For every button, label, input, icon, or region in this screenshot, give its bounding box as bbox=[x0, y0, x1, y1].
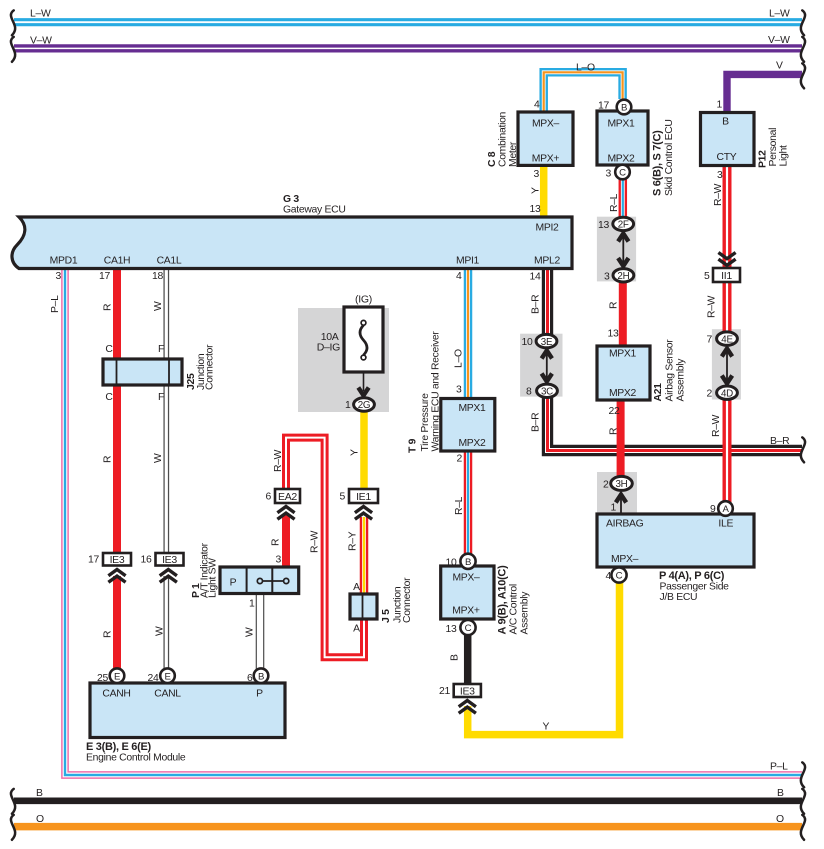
svg-text:(IG): (IG) bbox=[355, 294, 372, 306]
svg-text:R–Y: R–Y bbox=[348, 531, 359, 551]
break brace V-W right bbox=[801, 37, 805, 62]
connector 3E/3C shaded zone bbox=[520, 334, 562, 397]
arrow into II1 bbox=[718, 253, 735, 266]
svg-text:10: 10 bbox=[522, 337, 533, 348]
svg-text:Gateway ECU: Gateway ECU bbox=[283, 205, 346, 216]
wire Y fuse to IE1 bbox=[360, 410, 368, 490]
connector oval 2G bbox=[354, 398, 375, 411]
ECU T9 Tire Pressure Warning ECU box bbox=[441, 399, 495, 452]
svg-text:L–W: L–W bbox=[30, 9, 51, 20]
svg-text:IE3: IE3 bbox=[460, 686, 475, 698]
svg-text:5: 5 bbox=[340, 492, 346, 503]
svg-text:17: 17 bbox=[598, 101, 609, 112]
break brace B right bbox=[801, 789, 805, 814]
ECU G3 Gateway ECU box bbox=[12, 217, 572, 269]
svg-text:10: 10 bbox=[446, 558, 457, 569]
svg-text:Combination: Combination bbox=[498, 111, 509, 167]
arrow into IE3 16 bbox=[160, 570, 177, 583]
fuse 10A D-IG bbox=[344, 307, 383, 372]
break brace O right bbox=[801, 815, 805, 840]
wire B-R 3C to right edge bbox=[548, 395, 803, 451]
svg-text:Assembly: Assembly bbox=[676, 358, 687, 402]
svg-text:MPX+: MPX+ bbox=[452, 606, 480, 617]
svg-text:L–O: L–O bbox=[453, 349, 464, 368]
svg-text:13: 13 bbox=[530, 204, 541, 215]
svg-text:R: R bbox=[271, 538, 282, 546]
svg-text:C 8: C 8 bbox=[487, 151, 498, 167]
connector oval 2F bbox=[613, 217, 634, 230]
junction J5 Junction Connector box bbox=[350, 594, 377, 619]
connector circle B A/C bbox=[460, 554, 475, 569]
wire R 2H to A21 bbox=[619, 280, 627, 348]
connector circle B ECM bbox=[254, 668, 269, 683]
connector circle E CANH bbox=[110, 668, 125, 683]
wire W P1 to ECM P bbox=[256, 592, 265, 670]
svg-text:21: 21 bbox=[439, 686, 450, 697]
break brace O left bbox=[11, 815, 15, 840]
svg-text:P12: P12 bbox=[758, 150, 769, 168]
connector II1 bbox=[713, 268, 740, 282]
svg-text:A21: A21 bbox=[653, 383, 664, 402]
svg-text:13: 13 bbox=[608, 329, 619, 340]
arrow 2F-2H bbox=[622, 236, 624, 263]
svg-text:CANL: CANL bbox=[154, 689, 181, 700]
connector EA2 bbox=[275, 489, 300, 503]
svg-text:B: B bbox=[621, 103, 627, 114]
svg-text:CTY: CTY bbox=[717, 152, 737, 163]
svg-text:3: 3 bbox=[56, 271, 62, 282]
svg-text:14: 14 bbox=[530, 272, 541, 283]
connector oval 3H bbox=[611, 476, 633, 490]
svg-text:IE3: IE3 bbox=[162, 554, 177, 566]
svg-text:MPI1: MPI1 bbox=[456, 256, 480, 267]
connector circle B S6 bbox=[617, 100, 632, 115]
svg-text:Passenger Side: Passenger Side bbox=[660, 582, 730, 593]
wire R-W loop EA2 to J5 bbox=[286, 438, 364, 658]
svg-text:MPX–: MPX– bbox=[611, 554, 639, 565]
svg-text:A 9(B), A10(C): A 9(B), A10(C) bbox=[497, 565, 509, 635]
arrow 3E-3C bbox=[546, 353, 548, 380]
svg-text:22: 22 bbox=[609, 406, 620, 417]
wire Y IE3 to J/B ECU bbox=[468, 582, 620, 735]
svg-text:Meter: Meter bbox=[508, 141, 519, 167]
svg-text:C: C bbox=[465, 623, 472, 634]
svg-text:R–W: R–W bbox=[707, 295, 718, 318]
svg-text:2G: 2G bbox=[358, 400, 370, 411]
svg-text:Warning ECU and Receiver: Warning ECU and Receiver bbox=[431, 331, 442, 452]
svg-text:3H: 3H bbox=[616, 479, 628, 490]
svg-text:9: 9 bbox=[710, 504, 716, 515]
wire W CA1L upper bbox=[163, 266, 169, 554]
svg-text:Light: Light bbox=[779, 145, 790, 166]
svg-text:A: A bbox=[353, 624, 360, 635]
svg-text:B: B bbox=[36, 788, 43, 799]
svg-text:3: 3 bbox=[534, 169, 540, 180]
svg-text:R: R bbox=[608, 301, 619, 309]
svg-text:B: B bbox=[722, 117, 729, 128]
svg-text:3: 3 bbox=[606, 169, 612, 180]
svg-text:F: F bbox=[158, 392, 164, 403]
svg-text:L–O: L–O bbox=[576, 63, 595, 74]
svg-text:E: E bbox=[114, 671, 120, 682]
break brace B left bbox=[11, 789, 15, 814]
wire V-W bus bbox=[14, 44, 802, 52]
arrow into IE3 21 bbox=[459, 701, 476, 714]
svg-text:C: C bbox=[619, 168, 626, 179]
svg-text:3: 3 bbox=[717, 170, 723, 181]
svg-text:Y: Y bbox=[542, 722, 549, 733]
svg-text:2: 2 bbox=[457, 454, 463, 465]
junction J25 Junction Connector box bbox=[103, 359, 182, 385]
svg-text:MPX–: MPX– bbox=[452, 573, 480, 584]
svg-text:E 3(B), E 6(E): E 3(B), E 6(E) bbox=[86, 741, 152, 753]
svg-text:5: 5 bbox=[704, 271, 710, 282]
sensor A21 Airbag Sensor Assembly box bbox=[597, 346, 650, 400]
break brace L-W left bbox=[11, 10, 15, 35]
svg-text:A/C Control: A/C Control bbox=[509, 584, 520, 634]
svg-text:W: W bbox=[155, 626, 166, 636]
wire V to P12 bbox=[727, 74, 802, 116]
svg-text:MPX2: MPX2 bbox=[458, 438, 486, 449]
svg-text:IE3: IE3 bbox=[110, 554, 125, 566]
svg-text:W: W bbox=[153, 301, 164, 311]
svg-text:O: O bbox=[36, 814, 44, 825]
svg-text:3E: 3E bbox=[541, 337, 553, 348]
svg-text:4E: 4E bbox=[721, 334, 733, 345]
wire R EA2 to P1 bbox=[282, 514, 290, 568]
svg-text:P–L: P–L bbox=[50, 295, 61, 313]
svg-text:3: 3 bbox=[456, 385, 462, 396]
svg-text:Personal: Personal bbox=[768, 128, 779, 167]
svg-text:4: 4 bbox=[456, 271, 462, 282]
svg-text:Skid Control ECU: Skid Control ECU bbox=[664, 119, 675, 196]
svg-text:2: 2 bbox=[603, 480, 609, 491]
svg-text:B: B bbox=[450, 654, 461, 661]
break brace L-W right bbox=[801, 10, 805, 35]
wire R-W 4D to ILE bbox=[723, 397, 732, 503]
svg-text:R–W: R–W bbox=[713, 183, 724, 206]
svg-text:1: 1 bbox=[611, 503, 617, 514]
connector IE3 16 bbox=[156, 553, 184, 566]
wire R A21 to 3H bbox=[617, 398, 625, 478]
svg-text:P 4(A), P 6(C): P 4(A), P 6(C) bbox=[659, 570, 725, 582]
connector IE3 21 bbox=[454, 684, 481, 697]
svg-text:MPX1: MPX1 bbox=[607, 119, 635, 130]
svg-text:Assembly: Assembly bbox=[520, 591, 531, 635]
connector circle C S6 bbox=[615, 165, 630, 180]
wire L-W bus bbox=[14, 18, 802, 26]
wire B A/C to IE3 bbox=[464, 633, 472, 685]
svg-text:4: 4 bbox=[534, 100, 540, 111]
arrow 4E-4D bbox=[726, 351, 728, 381]
svg-text:A: A bbox=[353, 582, 360, 593]
svg-text:B–R: B–R bbox=[531, 294, 542, 314]
svg-text:S 6(B), S 7(C): S 6(B), S 7(C) bbox=[652, 130, 664, 196]
svg-text:MPX2: MPX2 bbox=[607, 154, 635, 165]
connector circle C J/B bbox=[611, 567, 626, 582]
connector circle C A/C bbox=[460, 620, 475, 635]
svg-text:2F: 2F bbox=[618, 220, 629, 231]
svg-text:Engine Control Module: Engine Control Module bbox=[86, 753, 186, 764]
ECU P4/P6 Passenger Side J/B ECU box bbox=[597, 514, 754, 567]
wire R-Y IE1 to J5 bbox=[360, 517, 369, 596]
wire R CA1H upper bbox=[113, 266, 121, 554]
svg-text:4D: 4D bbox=[721, 388, 733, 399]
svg-text:C: C bbox=[616, 571, 623, 582]
svg-text:R: R bbox=[103, 455, 114, 463]
svg-text:B: B bbox=[465, 557, 471, 568]
svg-text:17: 17 bbox=[88, 555, 99, 566]
svg-text:3: 3 bbox=[604, 272, 610, 283]
svg-text:J/B ECU: J/B ECU bbox=[660, 592, 698, 603]
wire L-O MPI1 to T9 bbox=[464, 266, 473, 400]
svg-text:16: 16 bbox=[141, 555, 152, 566]
svg-text:W: W bbox=[153, 453, 164, 463]
svg-text:F: F bbox=[158, 344, 164, 355]
wire Y C8 to G3 MPI2 bbox=[540, 164, 548, 218]
svg-text:1: 1 bbox=[717, 100, 723, 111]
svg-text:MPD1: MPD1 bbox=[50, 256, 78, 267]
svg-text:Connector: Connector bbox=[402, 577, 413, 623]
svg-text:CA1L: CA1L bbox=[157, 256, 182, 267]
svg-text:2: 2 bbox=[707, 389, 713, 400]
svg-text:Tire Pressure: Tire Pressure bbox=[420, 393, 431, 452]
svg-text:25: 25 bbox=[97, 673, 108, 684]
wire W CA1L lower bbox=[163, 576, 169, 670]
svg-text:A: A bbox=[722, 504, 729, 515]
break brace P-L right bbox=[801, 762, 805, 787]
svg-text:6: 6 bbox=[247, 673, 253, 684]
connector circle E CANL bbox=[160, 668, 175, 683]
svg-text:R–W: R–W bbox=[711, 414, 722, 437]
svg-text:R: R bbox=[103, 303, 114, 311]
svg-text:J 5: J 5 bbox=[381, 609, 392, 623]
svg-text:18: 18 bbox=[152, 271, 163, 282]
svg-text:W: W bbox=[244, 627, 255, 637]
svg-text:B: B bbox=[258, 671, 264, 682]
svg-text:EA2: EA2 bbox=[278, 491, 297, 503]
connector oval 4E bbox=[717, 332, 738, 345]
fuse output lead bbox=[363, 372, 365, 391]
wire R CA1H lower bbox=[113, 576, 121, 670]
svg-text:E: E bbox=[164, 671, 170, 682]
svg-text:R–L: R–L bbox=[609, 193, 620, 212]
light P12 Personal Light box bbox=[701, 113, 755, 166]
connector oval 2H bbox=[613, 269, 634, 282]
arrow into IE3 17 bbox=[108, 570, 125, 583]
wire P-L from G3 MPD1 bbox=[65, 266, 802, 775]
svg-text:8: 8 bbox=[526, 387, 532, 398]
connector oval 3C bbox=[537, 384, 558, 397]
svg-text:C: C bbox=[105, 344, 113, 355]
svg-text:B–R: B–R bbox=[531, 412, 542, 432]
break brace B-R right bbox=[801, 437, 805, 462]
svg-text:7: 7 bbox=[707, 335, 713, 346]
svg-text:13: 13 bbox=[598, 220, 609, 231]
connector IE3 17 bbox=[103, 553, 131, 566]
wire R-L T9 to A/C bbox=[464, 450, 473, 556]
break brace V-W left bbox=[11, 37, 15, 62]
arrow into 3H bbox=[620, 498, 622, 514]
svg-text:24: 24 bbox=[148, 673, 159, 684]
arrow into IE1 bbox=[355, 507, 372, 520]
svg-text:CANH: CANH bbox=[102, 689, 130, 700]
svg-text:1: 1 bbox=[345, 400, 351, 411]
connector 3H shaded zone bbox=[597, 472, 637, 514]
svg-text:R–W: R–W bbox=[310, 530, 321, 553]
panel A9/A10 A/C Control Assembly box bbox=[441, 566, 494, 619]
switch P1 A/T Indicator Light SW box bbox=[220, 567, 299, 594]
svg-text:V: V bbox=[776, 61, 783, 72]
svg-text:Light SW: Light SW bbox=[208, 558, 219, 598]
svg-text:V–W: V–W bbox=[30, 36, 52, 47]
svg-text:B: B bbox=[777, 788, 784, 799]
svg-text:R: R bbox=[103, 630, 114, 638]
svg-text:MPX1: MPX1 bbox=[609, 349, 637, 360]
svg-text:1: 1 bbox=[249, 599, 255, 610]
svg-text:IE1: IE1 bbox=[356, 491, 371, 503]
wire R-L S6 to 2F bbox=[619, 178, 628, 219]
meter C8 Combination Meter box bbox=[518, 112, 573, 165]
svg-text:MPX+: MPX+ bbox=[532, 154, 560, 165]
svg-text:3C: 3C bbox=[541, 387, 553, 398]
connector IE1 bbox=[349, 489, 378, 503]
svg-text:17: 17 bbox=[99, 271, 110, 282]
fuse block shaded zone bbox=[298, 308, 389, 412]
connector oval 4D bbox=[717, 386, 738, 399]
wire B bus bbox=[14, 797, 802, 804]
wire L-O C8 to S6 bbox=[544, 72, 623, 113]
svg-text:B–R: B–R bbox=[770, 436, 790, 447]
connector 2F/2H shaded zone bbox=[597, 217, 636, 282]
svg-text:V–W: V–W bbox=[768, 35, 790, 46]
svg-text:MPI2: MPI2 bbox=[535, 223, 559, 234]
svg-text:3: 3 bbox=[276, 555, 282, 566]
svg-text:MPX–: MPX– bbox=[532, 119, 560, 130]
svg-text:P–L: P–L bbox=[770, 762, 788, 773]
svg-text:P: P bbox=[256, 689, 263, 700]
ECM E3/E6 Engine Control Module box bbox=[90, 683, 285, 738]
svg-text:O: O bbox=[776, 814, 784, 825]
wire R-W II1 to 4E bbox=[723, 282, 732, 334]
wire R-W CTY to II1 bbox=[723, 164, 732, 268]
svg-text:Y: Y bbox=[350, 449, 361, 456]
svg-text:II1: II1 bbox=[721, 270, 732, 282]
svg-text:P: P bbox=[230, 578, 237, 589]
svg-text:R–L: R–L bbox=[454, 496, 465, 515]
svg-text:T 9: T 9 bbox=[408, 438, 419, 453]
svg-text:G 3: G 3 bbox=[283, 194, 299, 205]
connector oval 3E bbox=[536, 334, 557, 347]
wire B-R MPL2 to 3E bbox=[542, 266, 553, 336]
ECU S6 Skid Control ECU box bbox=[597, 111, 648, 165]
svg-text:ILE: ILE bbox=[718, 519, 733, 530]
svg-text:Connector: Connector bbox=[205, 344, 216, 390]
break brace V right bbox=[801, 63, 805, 88]
connector circle A J/B bbox=[718, 501, 733, 516]
svg-text:Airbag Sensor: Airbag Sensor bbox=[665, 339, 676, 402]
arrow into EA2 bbox=[277, 507, 294, 520]
svg-text:R–W: R–W bbox=[273, 449, 284, 472]
wire O bus bbox=[14, 823, 802, 831]
svg-text:6: 6 bbox=[266, 492, 272, 503]
svg-text:R: R bbox=[608, 427, 619, 435]
svg-text:MPX1: MPX1 bbox=[458, 403, 486, 414]
svg-text:CA1H: CA1H bbox=[104, 256, 131, 267]
svg-text:C: C bbox=[105, 392, 113, 403]
svg-text:AIRBAG: AIRBAG bbox=[606, 519, 644, 530]
svg-text:13: 13 bbox=[446, 624, 457, 635]
svg-text:MPL2: MPL2 bbox=[534, 256, 560, 267]
svg-text:2H: 2H bbox=[617, 271, 629, 282]
svg-text:L–W: L–W bbox=[769, 9, 790, 20]
connector 4E/4D shaded zone bbox=[712, 329, 741, 399]
svg-text:D–IG: D–IG bbox=[317, 342, 340, 354]
svg-text:MPX2: MPX2 bbox=[609, 388, 637, 399]
svg-text:Y: Y bbox=[531, 187, 542, 194]
